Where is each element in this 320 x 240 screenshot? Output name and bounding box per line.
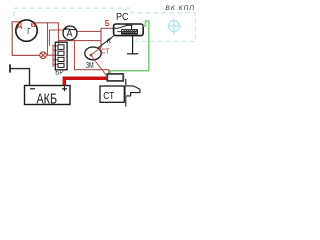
svg-text:СТ: СТ <box>103 91 114 102</box>
lamp <box>40 52 47 59</box>
wire: lower red run to node <box>59 40 102 42</box>
wire: dashed compartment boundary <box>14 8 196 41</box>
minus <box>30 88 35 90</box>
svg-text:Б: Б <box>105 18 110 28</box>
relay coil <box>117 30 137 34</box>
wire: K to ignition <box>98 36 115 49</box>
relay ground <box>127 36 138 54</box>
svg-text:б: б <box>31 20 37 29</box>
svg-text:БР: БР <box>55 68 64 77</box>
starter body <box>100 86 124 102</box>
wire: riser down to solenoid line <box>75 41 109 74</box>
wire: ammeter left to comb <box>50 30 64 46</box>
wire: lamp right riser to b-wire <box>46 54 53 56</box>
ammeter arrow <box>66 29 76 30</box>
starter solenoid <box>107 74 123 81</box>
ground bar <box>9 64 11 72</box>
relay RS box <box>114 24 144 36</box>
generator G <box>16 20 37 41</box>
ammeter A <box>63 26 77 40</box>
comb connector <box>53 45 58 67</box>
svg-text:Д: Д <box>17 20 23 29</box>
svg-text:СТ: СТ <box>101 46 110 55</box>
wire: battery minus to ground <box>10 69 30 86</box>
svg-text:ВК КПП: ВК КПП <box>165 5 195 12</box>
plus <box>62 88 67 90</box>
flywheel line <box>125 79 127 107</box>
wire: ZM to ST node arrow <box>92 48 101 55</box>
wire: ZM to starter bus <box>92 56 108 76</box>
svg-text:А: А <box>66 29 73 40</box>
starter nose <box>126 86 140 96</box>
battery AKB <box>25 86 71 105</box>
svg-text:РС: РС <box>116 12 129 23</box>
wire: green relay to starter <box>110 21 149 74</box>
wire: ammeter right <box>77 30 101 32</box>
wire: node vertical and to relay B <box>101 28 114 47</box>
relay contact <box>114 25 133 30</box>
svg-text:АКБ: АКБ <box>37 91 58 107</box>
fuse block BR <box>55 42 67 70</box>
svg-text:ЗМ: ЗМ <box>86 60 94 70</box>
wire: generator b terminal to block <box>34 23 59 44</box>
ignition switch ZM <box>85 47 101 60</box>
wire: thick bus battery to starter <box>64 78 106 85</box>
switch VK KPP <box>168 18 182 34</box>
wire: generator D terminal to lamp <box>12 22 40 56</box>
